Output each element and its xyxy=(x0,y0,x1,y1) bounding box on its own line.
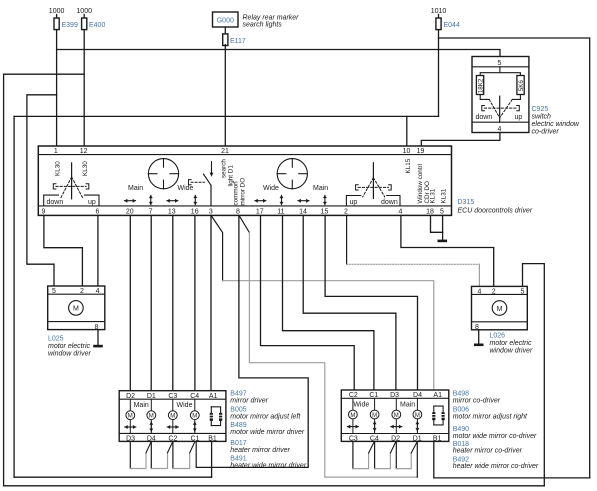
wire B497 pin B1 to heater bus xyxy=(211,441,213,477)
ground (L026) xyxy=(474,344,484,347)
svg-text:down: down xyxy=(381,199,398,206)
svg-text:C925: C925 xyxy=(532,106,549,113)
svg-text:E044: E044 xyxy=(444,22,460,29)
wire KL30 E400 branch left edge down to bottom bus xyxy=(4,74,545,486)
svg-text:Relay rear marker: Relay rear marker xyxy=(243,15,300,22)
fuse E044 xyxy=(436,18,441,30)
wire chain loop D4-C2 (gray) xyxy=(151,453,167,469)
wire ECU pin 8 to B497 common chain xyxy=(196,215,308,467)
svg-text:window driver: window driver xyxy=(48,351,91,358)
svg-text:2: 2 xyxy=(492,288,496,295)
switch C925 outer box xyxy=(472,57,529,133)
svg-text:5: 5 xyxy=(498,60,502,67)
svg-text:down: down xyxy=(476,114,493,121)
wire ECU pin 9 to L025 pin 2 xyxy=(44,215,83,286)
resistor 5K6 xyxy=(517,76,524,95)
svg-text:motor wide mirror co-driver: motor wide mirror co-driver xyxy=(453,433,537,440)
wire ECU pin 2 down xyxy=(346,215,348,264)
svg-text:Main: Main xyxy=(134,402,149,409)
wire ECU pin 3 branch (jog) xyxy=(212,217,223,281)
commutator motor symbol right (window co-driver) xyxy=(277,159,307,189)
wire ECU pin 8 branch (jog) xyxy=(240,217,250,233)
svg-text:search lights: search lights xyxy=(243,22,283,29)
svg-text:mirror co-driver: mirror co-driver xyxy=(453,397,501,404)
svg-text:D315: D315 xyxy=(458,199,475,206)
wire L025 pin 8 to ground xyxy=(97,330,99,345)
motor symbol L026 xyxy=(492,301,507,316)
motor B489 left-right (column C3) xyxy=(172,399,174,433)
svg-text:17: 17 xyxy=(256,208,264,215)
svg-text:common: common xyxy=(232,181,239,206)
svg-text:B490: B490 xyxy=(453,426,469,433)
svg-text:up: up xyxy=(350,199,358,206)
wire ECU pin 4 to L026 pin 2 xyxy=(401,215,494,286)
svg-text:E117: E117 xyxy=(230,38,246,45)
motor B489 up-down (column C4) xyxy=(194,399,196,433)
wire C925 pin 4 to ECU pin 19 xyxy=(421,133,500,147)
wire B497 pin D4 chain xyxy=(150,441,152,468)
svg-text:KL31: KL31 xyxy=(430,188,437,203)
fuse E117 xyxy=(223,34,228,46)
wire KL30 E399 branch to motor L025 pin 5 xyxy=(27,95,57,286)
svg-text:M: M xyxy=(497,306,503,313)
heater B018/B492 (A1-B1) xyxy=(432,406,445,425)
svg-text:5: 5 xyxy=(520,288,524,295)
motor L025 box xyxy=(48,286,105,330)
wire left edge KL15 down to heater bus xyxy=(13,116,15,477)
arrow pin 15 xyxy=(323,195,327,205)
svg-text:Main: Main xyxy=(400,402,415,409)
wire ECU pin 11 to B498 pin C1 xyxy=(283,215,374,390)
wire B497 pin D3 chain xyxy=(129,441,131,468)
svg-text:B005: B005 xyxy=(230,406,246,413)
svg-text:E400: E400 xyxy=(89,22,105,29)
svg-text:21: 21 xyxy=(221,148,229,155)
wire D4 diagonal xyxy=(146,441,151,452)
wire B498 pin D1 to common (joins gray run) xyxy=(416,441,418,477)
svg-text:B006: B006 xyxy=(453,407,469,414)
wire B498 pin C4 chain xyxy=(374,441,376,468)
svg-text:16: 16 xyxy=(191,208,199,215)
relay G000 xyxy=(213,12,239,27)
wire C1 diagonal xyxy=(190,441,195,452)
wire C925 internal feed xyxy=(480,67,520,76)
svg-text:switch: switch xyxy=(532,114,552,121)
wire fuse E399 down to ECU pin 1 xyxy=(56,30,58,146)
svg-text:Window contrl: Window contrl xyxy=(417,164,424,204)
mirror unit co-driver box (B498 group) xyxy=(341,390,449,441)
motor symbol L025 xyxy=(69,301,84,316)
motor B005 up-down (column D1) xyxy=(150,399,152,433)
svg-text:8: 8 xyxy=(236,208,240,215)
wire common mirror DO to B498 pin A1 (gray) xyxy=(223,281,434,390)
wire ECU pin 15 to B498 pin D4 xyxy=(325,215,417,390)
wire chain loop C4-D2 (gray) xyxy=(375,453,391,469)
svg-text:KL31: KL31 xyxy=(440,188,447,203)
wire D2 diagonal xyxy=(390,441,396,453)
svg-text:6: 6 xyxy=(96,208,100,215)
wire B498 pin D2 chain xyxy=(395,441,397,468)
svg-text:motor wide mirror driver: motor wide mirror driver xyxy=(230,429,305,436)
resistor 18K2 xyxy=(476,76,483,95)
wire B497 pin C2 chain xyxy=(172,441,174,468)
wire G000 to fuse E117 xyxy=(224,27,226,35)
ground (L025) xyxy=(93,345,103,348)
svg-text:Wide: Wide xyxy=(177,402,193,409)
motor B006 left-right (column D3) xyxy=(395,398,397,433)
svg-text:2: 2 xyxy=(80,288,84,295)
arrow pin 14 xyxy=(298,199,310,203)
svg-text:KL15: KL15 xyxy=(405,158,412,173)
fuse E399 xyxy=(54,18,59,30)
motor L026 box xyxy=(472,286,528,329)
wire B498 pin B1 to right edge heater feed xyxy=(434,441,590,478)
svg-text:Main: Main xyxy=(128,185,143,192)
svg-text:search: search xyxy=(220,159,227,178)
arrow pin 16 xyxy=(193,195,197,205)
svg-text:7: 7 xyxy=(149,208,153,215)
wire KL15 branch to ECU pin 10 xyxy=(406,116,408,146)
svg-text:L025: L025 xyxy=(48,336,64,343)
svg-text:14: 14 xyxy=(299,208,307,215)
wire fuse E400 down to ECU pin 12 xyxy=(83,30,85,146)
svg-text:Wide: Wide xyxy=(353,402,369,409)
svg-text:G000: G000 xyxy=(217,18,234,25)
wire supply to fuse E399 xyxy=(56,15,58,19)
svg-text:up: up xyxy=(515,114,523,121)
wire ECU pin 20 to B497 pin D2 xyxy=(129,215,131,390)
wire KL15 horizontal run to left edge xyxy=(14,115,438,117)
svg-text:3: 3 xyxy=(209,208,213,215)
svg-text:15: 15 xyxy=(321,208,329,215)
wire fuse E044 branch to right edge (heater co-driver B1) xyxy=(439,38,590,478)
wire pin 8 branch to B498 common chain (gray) xyxy=(249,233,417,478)
svg-text:4: 4 xyxy=(498,126,502,133)
wire supply to fuse E044 xyxy=(438,15,440,19)
svg-text:11: 11 xyxy=(277,208,284,215)
svg-text:13: 13 xyxy=(168,208,176,215)
wire fuse E117 down to ECU pin 21 xyxy=(224,45,226,146)
svg-text:heater wide mirror co-driver: heater wide mirror co-driver xyxy=(453,463,539,470)
svg-text:down: down xyxy=(47,199,64,206)
svg-text:4: 4 xyxy=(477,288,481,295)
svg-text:heater mirror driver: heater mirror driver xyxy=(230,447,290,454)
svg-text:5: 5 xyxy=(52,288,56,295)
fuse E400 xyxy=(82,18,87,30)
arrow pin 20 xyxy=(124,199,136,203)
wire C4 diagonal xyxy=(369,441,375,453)
svg-text:L026: L026 xyxy=(490,333,506,340)
svg-text:2: 2 xyxy=(344,208,348,215)
wire B497 pin C1 to common (joins pin 8 run) xyxy=(195,441,197,467)
svg-text:D3: D3 xyxy=(390,392,399,399)
wire fuse E044 down to node KL15 xyxy=(438,30,440,116)
wire ECU pin 14 to B498 pin D3 xyxy=(303,215,396,390)
wire ECU pin 18 to ground xyxy=(431,215,443,232)
wire ECU pin 17 to B498 pin C2 xyxy=(261,215,355,390)
svg-text:KL30: KL30 xyxy=(82,161,89,176)
svg-text:9: 9 xyxy=(42,208,46,215)
motor B005 left-right (column D2) xyxy=(129,399,131,433)
svg-text:5K6: 5K6 xyxy=(518,80,525,92)
svg-text:mirror driver: mirror driver xyxy=(230,398,268,405)
arrow pin 11 xyxy=(280,195,284,205)
wire L026 pin 8 to ground xyxy=(478,330,480,343)
switch C925 contact lever xyxy=(499,96,501,122)
svg-text:motor electric: motor electric xyxy=(490,340,533,347)
wire chain loop D2-D1 (gray) xyxy=(396,453,411,469)
commutator motor symbol left (window driver) xyxy=(148,159,178,189)
wire ECU pin 16 to B497 pin C4 xyxy=(194,215,196,390)
wire bus KL30 to switch C925 pin 5 xyxy=(57,50,500,57)
svg-text:E399: E399 xyxy=(62,22,78,29)
mirror unit driver box (B497 group) xyxy=(119,391,226,442)
wire ECU pin 5 to ground xyxy=(442,215,444,239)
svg-text:4: 4 xyxy=(96,288,100,295)
wire chain loop C2-C1 (gray) xyxy=(173,453,190,469)
wire supply to fuse E400 xyxy=(83,15,85,19)
wire C2 diagonal xyxy=(168,441,173,452)
wire ECU pin 3 to B497 pin A1 xyxy=(210,215,212,390)
switch window co-driver (ECU right, pins 2/4) xyxy=(372,163,374,199)
svg-text:window driver: window driver xyxy=(490,348,533,355)
svg-text:18K2: 18K2 xyxy=(478,78,485,93)
ECU D315 box xyxy=(38,146,451,215)
motor B490 left-right (column C2) xyxy=(352,398,354,433)
svg-text:B498: B498 xyxy=(453,390,469,397)
svg-text:B017: B017 xyxy=(230,440,246,447)
wire L026 pin 5 to bottom bus KL30 xyxy=(523,264,545,486)
svg-text:ECU doorcontrols driver: ECU doorcontrols driver xyxy=(458,208,533,215)
svg-text:10: 10 xyxy=(403,148,411,155)
wire resistor stubs C925 xyxy=(480,95,520,100)
svg-text:up: up xyxy=(88,199,96,206)
svg-text:20: 20 xyxy=(126,208,134,215)
wire ECU pin 13 to B497 pin C3 xyxy=(172,215,174,390)
wire B498 pin C3 chain xyxy=(352,441,354,468)
svg-text:A1: A1 xyxy=(209,393,218,400)
svg-text:12: 12 xyxy=(80,148,88,155)
svg-text:M: M xyxy=(73,306,79,313)
svg-text:Wide: Wide xyxy=(178,185,194,192)
svg-text:motor electric: motor electric xyxy=(48,343,91,350)
arrow pin 13 xyxy=(167,199,179,203)
switch search light D1 (ECU middle, pin 3) xyxy=(211,162,213,174)
svg-text:B497: B497 xyxy=(230,391,246,398)
svg-text:1: 1 xyxy=(54,148,58,155)
svg-text:A1: A1 xyxy=(433,392,442,399)
svg-text:KL30: KL30 xyxy=(54,161,61,176)
wire pin 2 to L026 pin 4 (dotted gray) xyxy=(347,263,480,265)
svg-text:C1: C1 xyxy=(369,392,378,399)
ground (ECU KL31) xyxy=(438,240,448,243)
svg-text:electric window: electric window xyxy=(532,121,580,128)
wire heater bus to B497 pin B1 xyxy=(14,476,212,478)
svg-text:19: 19 xyxy=(417,148,425,155)
svg-text:B489: B489 xyxy=(230,422,246,429)
svg-text:Wide: Wide xyxy=(263,185,279,192)
svg-text:Main: Main xyxy=(313,185,328,192)
motor B006 up-down (column D4) xyxy=(416,398,418,433)
svg-text:heater wide mirror driver: heater wide mirror driver xyxy=(230,462,307,469)
svg-text:motor mirror adjust right: motor mirror adjust right xyxy=(453,414,528,421)
wire chain loop C3-C4 (gray) xyxy=(353,453,369,469)
wire chain loop D3-D4 (gray) xyxy=(130,453,146,469)
wire D1 diagonal xyxy=(411,441,417,453)
heater B017/B491 (A1-B1) xyxy=(210,407,223,426)
wire ECU pin 7 to B497 pin D1 xyxy=(150,215,152,390)
svg-text:co-driver: co-driver xyxy=(532,129,560,136)
switch window driver (ECU left, pins 9/6) xyxy=(71,163,73,199)
arrow pin 7 xyxy=(149,195,153,205)
svg-text:mirror DO: mirror DO xyxy=(239,178,246,206)
svg-text:heater mirror co-driver: heater mirror co-driver xyxy=(453,448,523,455)
wire ECU pin 6 to L025 pin 4 xyxy=(97,215,99,286)
svg-text:5: 5 xyxy=(440,208,444,215)
svg-text:4: 4 xyxy=(398,208,402,215)
arrow pin 17 xyxy=(255,199,267,203)
svg-text:motor mirror adjust left: motor mirror adjust left xyxy=(230,413,301,420)
svg-text:18: 18 xyxy=(426,208,434,215)
svg-text:B1: B1 xyxy=(208,435,217,442)
motor B490 up-down (column C1) xyxy=(374,398,376,433)
